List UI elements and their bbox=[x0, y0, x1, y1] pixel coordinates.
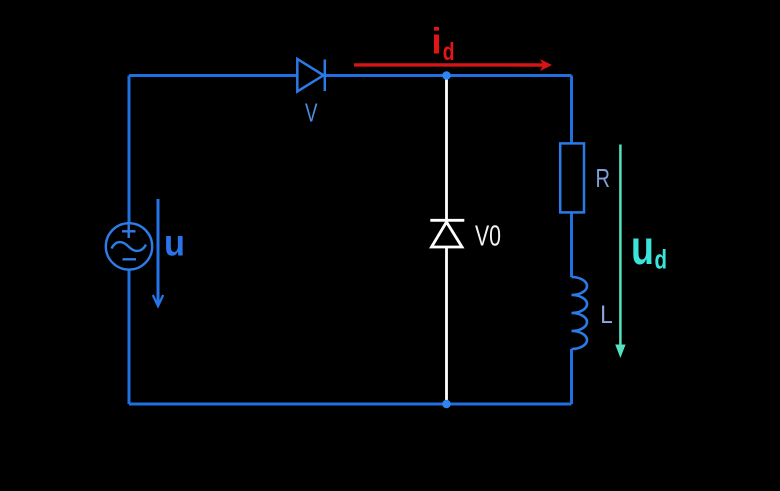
svg-text:L: L bbox=[600, 301, 613, 329]
svg-text:V: V bbox=[305, 97, 318, 127]
svg-text:u: u bbox=[631, 222, 654, 275]
svg-text:u: u bbox=[164, 222, 185, 263]
svg-text:R: R bbox=[596, 163, 611, 193]
svg-text:d: d bbox=[655, 245, 668, 275]
svg-text:V0: V0 bbox=[475, 221, 501, 253]
svg-text:d: d bbox=[443, 38, 455, 66]
svg-text:i: i bbox=[432, 21, 442, 62]
